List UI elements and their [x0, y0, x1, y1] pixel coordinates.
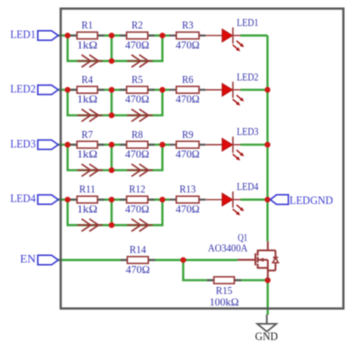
port EN	[20, 254, 58, 266]
svg-text:470Ω: 470Ω	[125, 204, 149, 215]
svg-text:Q1: Q1	[238, 233, 248, 244]
svg-text:LED1: LED1	[237, 18, 259, 29]
svg-text:1kΩ: 1kΩ	[77, 95, 98, 106]
jumper chevron row2b	[127, 109, 153, 121]
port LED2	[10, 83, 58, 95]
svg-text:R15: R15	[216, 286, 233, 297]
junction trunk row4 (LEDGND)	[265, 197, 271, 203]
jumper chevron row4a	[77, 219, 103, 231]
svg-text:LEDGND: LEDGND	[290, 195, 334, 207]
wire row 4 led out	[241, 199, 268, 201]
port LEDGND	[270, 195, 333, 207]
svg-text:R8: R8	[132, 130, 143, 141]
junction row 1 j3	[160, 33, 166, 39]
junction Q1 source / R15	[265, 277, 271, 283]
svg-text:LED4: LED4	[237, 182, 259, 193]
transistor Q1 AO3400A	[208, 233, 279, 280]
svg-text:GND: GND	[255, 331, 278, 343]
resistor R12	[120, 185, 155, 216]
port LED4	[10, 193, 58, 205]
svg-text:470Ω: 470Ω	[176, 150, 200, 161]
wire row 3 led out	[241, 144, 268, 146]
svg-text:470Ω: 470Ω	[126, 265, 150, 276]
wire row 4 mid drop	[110, 200, 112, 226]
wire source to GND	[267, 280, 269, 315]
jumper chevron row2a	[77, 109, 103, 121]
resistor R11	[70, 185, 104, 216]
LED LED2	[206, 72, 259, 105]
junction row 1 j1	[65, 33, 71, 39]
junction row 4 j2	[109, 197, 115, 203]
svg-text:R2: R2	[132, 21, 143, 32]
jumper chevron row1a	[77, 55, 103, 67]
wire trunk (LED cathodes to Q1 drain)	[266, 36, 268, 242]
wire row 2 mid drop	[110, 90, 112, 116]
svg-text:R11: R11	[79, 185, 95, 196]
wire row 4 main	[58, 199, 162, 201]
resistor R1	[70, 21, 104, 52]
resistor R14	[121, 245, 156, 276]
wire row 2 bypass	[68, 90, 163, 116]
svg-text:100kΩ: 100kΩ	[209, 297, 239, 308]
junction row 2 bypass mid	[109, 112, 115, 118]
jumper chevron row1b	[127, 55, 153, 67]
wire row 2 led out	[241, 89, 268, 91]
junction row 1 j2	[109, 33, 115, 39]
junction row 3 j3	[160, 142, 166, 148]
wire row 3 bypass	[68, 145, 163, 171]
wire row 3 mid drop	[110, 145, 112, 171]
svg-text:470Ω: 470Ω	[125, 150, 149, 161]
wire row 1 mid drop	[110, 36, 112, 62]
ground GND	[255, 315, 278, 344]
wire LEDGND stub	[268, 199, 272, 201]
svg-text:R12: R12	[129, 185, 145, 196]
junction EN/R15	[180, 257, 186, 263]
junction row 1 bypass mid	[109, 58, 115, 64]
svg-text:R4: R4	[82, 75, 93, 86]
wire row 4 bypass	[68, 200, 163, 226]
junction row 2 j2	[109, 87, 115, 93]
svg-text:LED1: LED1	[10, 29, 36, 41]
wire row 1 main	[58, 34, 162, 36]
jumper chevron row3b	[127, 164, 153, 176]
svg-text:R5: R5	[132, 75, 143, 86]
LED LED3	[206, 127, 259, 160]
svg-text:1kΩ: 1kΩ	[77, 150, 98, 161]
resistor R6	[170, 75, 206, 106]
sheet frame	[61, 9, 344, 309]
resistor R15	[207, 277, 241, 309]
LED LED1	[206, 18, 259, 51]
svg-text:470Ω: 470Ω	[125, 40, 149, 51]
resistor R4	[70, 75, 104, 106]
svg-text:R13: R13	[180, 185, 196, 196]
svg-text:470Ω: 470Ω	[176, 95, 200, 106]
resistor R7	[70, 130, 104, 161]
resistor R9	[170, 130, 206, 161]
junction row 3 j2	[109, 142, 115, 148]
svg-text:LED2: LED2	[237, 72, 259, 83]
junction row 4 j3	[160, 197, 166, 203]
svg-text:R6: R6	[182, 75, 193, 86]
svg-text:R7: R7	[82, 130, 93, 141]
junction row 4 bypass mid	[109, 222, 115, 228]
LED LED4	[206, 182, 259, 215]
junction trunk row2	[265, 87, 271, 93]
resistor R5	[120, 75, 155, 106]
port LED3	[10, 138, 58, 150]
svg-text:LED3: LED3	[10, 138, 36, 150]
resistor R2	[120, 21, 155, 52]
junction row 2 j3	[160, 87, 166, 93]
svg-text:EN: EN	[20, 254, 36, 266]
svg-text:LED3: LED3	[237, 127, 259, 138]
junction row 2 j1	[65, 87, 71, 93]
junction trunk row3	[265, 142, 271, 148]
wire gate branch down to R15	[183, 260, 268, 280]
resistor R8	[120, 130, 155, 161]
wire row 1 led out	[241, 34, 268, 36]
svg-text:LED2: LED2	[10, 83, 36, 95]
svg-text:1kΩ: 1kΩ	[77, 204, 98, 215]
wire row 1 bypass	[68, 36, 163, 62]
svg-text:1kΩ: 1kΩ	[77, 40, 98, 51]
resistor R13	[170, 185, 206, 216]
resistor R3	[170, 21, 206, 52]
junction row 4 j1	[65, 197, 71, 203]
svg-text:470Ω: 470Ω	[176, 40, 200, 51]
jumper chevron row4b	[127, 219, 153, 231]
junction row 3 bypass mid	[109, 167, 115, 173]
svg-text:R1: R1	[82, 21, 93, 32]
junction row 3 j1	[65, 142, 71, 148]
svg-text:AO3400A: AO3400A	[208, 244, 248, 255]
svg-text:470Ω: 470Ω	[176, 204, 200, 215]
svg-text:LED4: LED4	[10, 193, 36, 205]
port LED1	[10, 29, 58, 41]
svg-text:R14: R14	[130, 245, 147, 256]
svg-text:R3: R3	[182, 21, 193, 32]
jumper chevron row3a	[77, 164, 103, 176]
wire row 2 main	[58, 89, 162, 91]
svg-text:470Ω: 470Ω	[125, 95, 149, 106]
svg-text:R9: R9	[182, 130, 193, 141]
wire EN row	[58, 259, 238, 261]
wire row 3 main	[58, 144, 162, 146]
